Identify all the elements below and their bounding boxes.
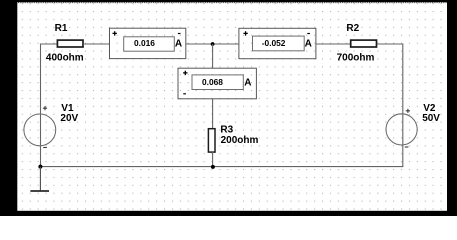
svg-text:R3: R3 — [220, 124, 233, 135]
svg-text:20V: 20V — [60, 113, 78, 124]
wire: left vertical through V1 — [40, 44, 42, 167]
svg-text:A: A — [244, 78, 251, 89]
wire: U3 bottom to R3 top lead — [212, 99, 214, 129]
ammeter U2 reading -0.052 A — [239, 28, 316, 58]
ammeter U3 reading 0.068 A — [178, 68, 256, 99]
junction node bottom-left (ground node) — [38, 165, 42, 169]
svg-text:R2: R2 — [346, 23, 359, 34]
wire: right vertical through V2 — [402, 44, 404, 167]
wire: R3 bottom lead to bottom bus — [212, 152, 214, 167]
svg-text:50V: 50V — [422, 113, 440, 124]
resistor R1 — [57, 40, 83, 47]
source V2 — [386, 109, 417, 147]
resistor R3 — [208, 129, 215, 152]
svg-text:200ohm: 200ohm — [221, 135, 259, 146]
svg-text:0.016: 0.016 — [134, 38, 155, 48]
wire: R1 right lead to ammeter U1 — [83, 43, 110, 45]
wire: top junction down to ammeter U3 — [212, 44, 214, 68]
wire: U2 to R2 left lead — [316, 43, 351, 45]
junction node top-center — [211, 42, 215, 46]
wire: top bus, V1 corner to R1 left lead — [41, 43, 58, 45]
svg-text:A: A — [175, 39, 182, 50]
svg-text:R1: R1 — [55, 23, 68, 34]
wire: bottom bus — [40, 166, 403, 168]
source V1 — [24, 106, 56, 147]
wire: U1 to U2 — [186, 43, 239, 45]
junction node bottom-center — [211, 165, 215, 169]
svg-text:0.068: 0.068 — [202, 77, 223, 87]
resistor R2 — [351, 40, 377, 47]
svg-text:400ohm: 400ohm — [46, 53, 84, 64]
wire: R2 right lead to top-right corner — [377, 43, 404, 45]
svg-text:-0.052: -0.052 — [262, 38, 286, 48]
svg-text:700ohm: 700ohm — [337, 53, 375, 64]
svg-text:A: A — [305, 39, 312, 50]
ground — [30, 167, 49, 191]
ammeter U1 reading 0.016 A — [110, 28, 186, 58]
